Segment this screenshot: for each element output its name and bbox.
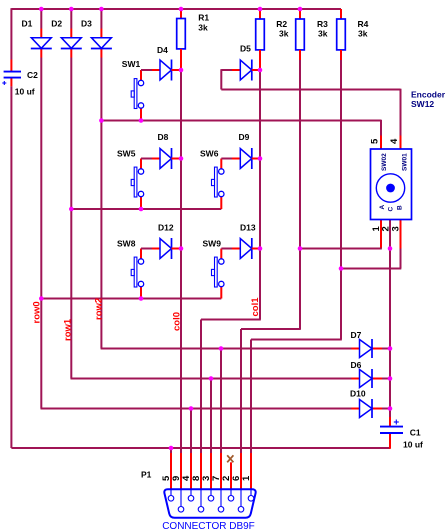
svg-text:D8: D8 <box>158 132 169 142</box>
svg-text:3k: 3k <box>358 29 368 39</box>
node row1 at D3 column <box>99 118 104 123</box>
svg-text:SW9: SW9 <box>203 239 222 249</box>
svg-text:1: 1 <box>241 475 252 481</box>
capacitor C2 <box>2 70 38 97</box>
encoder label <box>411 90 445 110</box>
svg-text:D10: D10 <box>350 389 366 399</box>
connector P1 DB9F <box>162 489 255 532</box>
svg-text:row0: row0 <box>32 301 43 323</box>
svg-text:3: 3 <box>391 226 402 231</box>
svg-text:B: B <box>397 205 404 210</box>
wire D1 column <box>40 9 42 409</box>
wire D6 row (D2 column to right bus) <box>71 378 391 380</box>
svg-text:10 uf: 10 uf <box>403 440 423 450</box>
resistor R4 <box>337 9 369 60</box>
node R1 top rail <box>179 7 184 12</box>
svg-text:R1: R1 <box>198 13 209 23</box>
wire R4 column dogleg to DB9 pin1 <box>251 60 342 489</box>
diode D3 <box>81 19 112 49</box>
svg-text:D2: D2 <box>51 19 62 29</box>
svg-text:col1: col1 <box>250 297 261 317</box>
svg-text:D1: D1 <box>22 19 33 29</box>
diode D10 <box>350 389 372 419</box>
svg-text:SW02: SW02 <box>381 153 388 171</box>
wire D2 column <box>70 9 72 379</box>
node D8 col0 <box>179 156 184 161</box>
node DB9 pin3 tee on D6 row <box>209 376 214 381</box>
svg-text:D9: D9 <box>239 132 250 142</box>
wire R3 column dogleg to DB9 pin6 <box>241 60 301 489</box>
node D13 col1 <box>258 246 263 251</box>
node R3 top rail <box>298 7 303 12</box>
resistor R3 <box>296 9 328 60</box>
node D10 right bus <box>388 406 393 411</box>
wire DB9 pin 3 (from D6 row) <box>210 379 212 490</box>
wire top rail <box>11 8 341 10</box>
node D1 top rail <box>39 7 44 12</box>
diode D12 <box>158 223 181 260</box>
resistor R1 <box>177 9 210 70</box>
svg-text:3k: 3k <box>198 23 208 33</box>
node D3 top rail <box>99 7 104 12</box>
wire D5 loop to encoder pin 4 <box>221 69 400 149</box>
svg-text:SW01: SW01 <box>402 153 409 171</box>
svg-text:3k: 3k <box>318 29 328 39</box>
wire encoder pin1 to R3 column <box>300 220 382 249</box>
node D12 col0 <box>179 246 184 251</box>
switch SW6 <box>200 149 240 210</box>
svg-text:D7: D7 <box>351 330 362 340</box>
node R2 top rail <box>258 7 263 12</box>
svg-text:SW8: SW8 <box>117 239 136 249</box>
node encoder pin1 at R3 column <box>298 246 303 251</box>
switch SW5 <box>117 149 160 210</box>
diode D5 <box>240 44 260 81</box>
svg-text:SW6: SW6 <box>200 149 219 159</box>
switch SW9 <box>203 239 241 299</box>
svg-text:P1: P1 <box>141 470 152 480</box>
node D4 R1 col0 <box>179 68 184 73</box>
wire D3 column <box>100 9 102 349</box>
svg-text:D13: D13 <box>240 223 256 233</box>
node SW5 bottom on row2 <box>139 207 144 212</box>
diode D1 <box>22 19 52 49</box>
node row2 at D2 column <box>69 207 74 212</box>
node SW1 bottom on row1 <box>139 118 144 123</box>
wire DB9 pin 5 (ground stub) <box>170 448 172 489</box>
svg-text:row2: row2 <box>94 298 105 320</box>
node DB9 pin7 tee on D7 row <box>219 346 224 351</box>
svg-text:D12: D12 <box>158 223 174 233</box>
node encoder pin3 at R4 column <box>339 266 344 271</box>
diode D13 <box>240 223 260 260</box>
wire encoder pin3 to R4 column <box>341 220 401 269</box>
node row3 at D1 column <box>39 296 44 301</box>
node encoder pin2 stub <box>388 246 393 251</box>
diode D7 <box>351 330 373 358</box>
svg-text:5: 5 <box>370 138 381 144</box>
switch SW1 <box>122 59 160 121</box>
svg-text:Encoder: Encoder <box>411 90 445 100</box>
node DB9 pin4 tee on D10 row <box>189 406 194 411</box>
node D5 R2 col1 <box>258 68 263 73</box>
svg-text:R4: R4 <box>358 19 369 29</box>
wire D10 row (D1 column to right bus) <box>41 408 391 410</box>
resistor R2 <box>256 9 289 70</box>
node D9 col1 <box>258 156 263 161</box>
wire right bus (encoder pin 2 to C1) <box>389 220 391 449</box>
svg-text:SW1: SW1 <box>122 59 141 69</box>
diode D9 <box>239 132 261 169</box>
svg-text:C: C <box>388 207 395 212</box>
wire C2 column <box>10 8 12 448</box>
encoder SW12 <box>371 149 412 220</box>
node D2 top rail <box>69 7 74 12</box>
no-connect X on DB9 pin 2 <box>227 455 233 489</box>
diode D2 <box>51 19 82 49</box>
svg-text:row1: row1 <box>63 318 74 341</box>
svg-text:D4: D4 <box>157 45 168 55</box>
diode D8 <box>158 132 182 169</box>
svg-text:R3: R3 <box>317 19 328 29</box>
svg-text:SW5: SW5 <box>117 149 136 159</box>
capacitor C1 <box>380 420 423 450</box>
wire D7 row (D3 column to right bus) <box>101 348 390 350</box>
diode D4 <box>157 45 181 81</box>
node D6 right bus <box>388 376 393 381</box>
wire row3 bus <box>41 298 221 300</box>
svg-text:4: 4 <box>389 138 400 144</box>
svg-text:C2: C2 <box>27 70 38 80</box>
svg-text:C1: C1 <box>410 428 421 438</box>
svg-text:R2: R2 <box>276 19 287 29</box>
node SW8 bottom on row3 <box>139 296 144 301</box>
svg-text:10 uf: 10 uf <box>15 87 35 97</box>
node D7 right bus <box>388 346 393 351</box>
svg-text:3k: 3k <box>279 29 289 39</box>
wire col0 vertical (R1 / D4 / D8 / D12 / DB9 pin9) <box>180 70 182 489</box>
diode D6 <box>351 360 373 388</box>
wire DB9 pin 4 (from D10 row) <box>190 409 192 490</box>
switch SW8 <box>117 239 160 299</box>
svg-text:D5: D5 <box>240 44 251 54</box>
wire col1 vertical and dogleg to DB9 pin8 <box>201 70 261 489</box>
node DB9 pin5 on bottom rail <box>169 446 174 451</box>
svg-text:CONNECTOR DB9F: CONNECTOR DB9F <box>162 521 255 532</box>
wire row1 bus to encoder pin 5 <box>101 120 381 149</box>
svg-text:SW12: SW12 <box>411 99 434 109</box>
wire row2 bus <box>71 208 221 210</box>
svg-text:A: A <box>379 205 386 210</box>
wire DB9 pin 7 (from D7 row) <box>220 349 222 490</box>
wire bottom rail <box>11 447 390 449</box>
svg-text:col0: col0 <box>172 312 183 331</box>
svg-text:D3: D3 <box>81 19 92 29</box>
svg-text:D6: D6 <box>351 360 362 370</box>
